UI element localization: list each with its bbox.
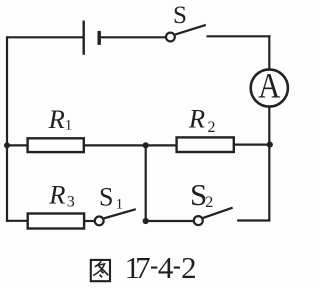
- node junction dot right (R2 / right rail): [267, 142, 273, 148]
- svg-text:S: S: [173, 2, 187, 29]
- wire switch S to top-right corner: [207, 35, 271, 37]
- caption hanzi "图" (drawn glyph): [91, 260, 110, 281]
- wire middle vertical (middle node down to bottom row): [145, 145, 147, 221]
- node junction dot left (left rail / R1): [4, 142, 10, 148]
- node junction dot bottom (middle branch / bottom row): [143, 218, 149, 224]
- ammeter U1 circle: [251, 69, 288, 106]
- svg-text:2: 2: [208, 119, 216, 136]
- wire right rail upper (corner down to ammeter): [268, 35, 270, 69]
- svg-text:2: 2: [205, 194, 213, 211]
- svg-text:2: 2: [181, 250, 197, 285]
- switch S pivot circle: [166, 33, 175, 42]
- svg-text:1: 1: [116, 197, 124, 213]
- wire battery to switch S: [99, 36, 166, 38]
- left rail wire (node from battery - down left side): [6, 36, 8, 222]
- resistor R3 box: [28, 214, 84, 229]
- svg-text:R: R: [188, 104, 205, 134]
- wire S2 fixed contact to bottom-right corner: [237, 219, 270, 221]
- switch S2 pivot circle: [194, 216, 203, 225]
- switch S blade (open): [175, 25, 206, 35]
- svg-text:4: 4: [158, 250, 174, 285]
- switch S1 blade (open): [104, 209, 136, 218]
- wire R2 to right rail: [234, 144, 269, 146]
- caption text "17-4-2": [125, 250, 197, 285]
- switch S1 pivot circle: [95, 217, 104, 226]
- svg-text:S: S: [99, 183, 113, 212]
- svg-text:3: 3: [67, 194, 75, 211]
- svg-text:7: 7: [135, 250, 151, 285]
- battery cell: short negative plate: [97, 31, 100, 45]
- wire top-left (battery + to left rail): [7, 36, 84, 38]
- svg-text:R: R: [48, 104, 65, 134]
- resistor R1 box: [28, 138, 84, 152]
- wire right rail lower (ammeter to bottom-right corner): [268, 107, 270, 221]
- wire bottom row left (left rail corner to R3): [7, 220, 28, 222]
- switch S2 blade (open): [203, 208, 233, 218]
- node junction dot middle (R1/R2 branch): [143, 142, 149, 148]
- battery cell: long positive plate: [82, 21, 84, 55]
- resistor R2 box: [177, 137, 234, 152]
- caption hyphens of "17-4-2": [151, 267, 180, 269]
- svg-text:1: 1: [65, 118, 73, 134]
- wire middle row left (left rail to R1): [7, 144, 28, 146]
- svg-text:R: R: [48, 179, 65, 209]
- svg-text:A: A: [258, 68, 280, 107]
- wire R1 to middle node: [84, 144, 177, 146]
- wire R3 to switch S1: [84, 220, 95, 222]
- wire bottom node to switch S2: [146, 220, 194, 222]
